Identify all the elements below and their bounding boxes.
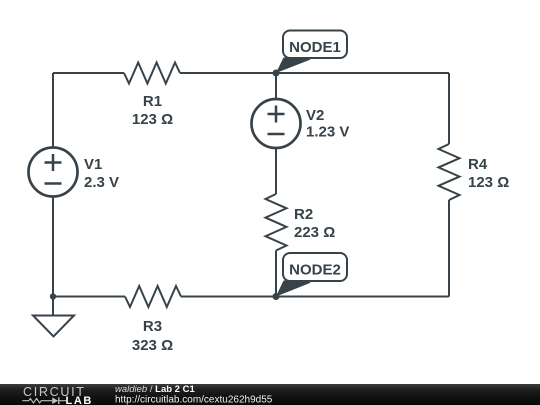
svg-text:V2: V2 xyxy=(306,107,324,124)
wire top-left horizontal (node at V1 top to R1 left) xyxy=(53,72,124,74)
wire NODE1 down to V2 xyxy=(275,73,277,99)
CircuitLab logo wire-resistor-diode icon xyxy=(22,397,66,404)
resistor R4 xyxy=(439,144,510,200)
wire right vertical top (corner to R4) xyxy=(448,73,450,144)
junction dot bottom-left xyxy=(50,293,56,299)
svg-text:R3: R3 xyxy=(143,318,162,335)
wire NODE1 to top-right corner xyxy=(276,72,449,74)
svg-text:NODE2: NODE2 xyxy=(289,262,341,279)
svg-text:2.3 V: 2.3 V xyxy=(84,174,119,191)
wire V1 bottom to bottom-left junction xyxy=(52,197,54,297)
ground stub wire xyxy=(52,297,54,316)
svg-text:1.23 V: 1.23 V xyxy=(306,124,349,141)
wire bottom-left (junction to R3) xyxy=(53,296,125,298)
wire R3 right to NODE2 and bottom-right corner xyxy=(181,296,449,298)
svg-text:waldieb / Lab 2 C1: waldieb / Lab 2 C1 xyxy=(115,384,195,395)
svg-text:123 Ω: 123 Ω xyxy=(132,111,173,128)
svg-text:223 Ω: 223 Ω xyxy=(294,224,335,241)
svg-text:V1: V1 xyxy=(84,156,102,173)
node NODE1 xyxy=(273,31,348,77)
svg-text:R4: R4 xyxy=(468,156,488,173)
svg-text:R1: R1 xyxy=(143,93,162,110)
wire R1 right to NODE1 xyxy=(180,72,276,74)
resistor R2 xyxy=(266,194,336,251)
svg-text:123 Ω: 123 Ω xyxy=(468,174,509,191)
ground xyxy=(33,316,74,337)
svg-text:LAB: LAB xyxy=(66,395,93,405)
wire R2 bottom to NODE2 xyxy=(275,251,277,297)
wire R4 bottom to bottom-right corner xyxy=(448,200,450,297)
voltage source V2 xyxy=(252,99,350,148)
resistor R3 xyxy=(125,286,181,354)
svg-text:323 Ω: 323 Ω xyxy=(132,337,173,354)
wire left vertical (top corner to V1) xyxy=(52,73,54,148)
voltage source V1 xyxy=(29,148,120,197)
node NODE2 xyxy=(273,253,348,300)
wire V2 bottom to R2 xyxy=(275,148,277,194)
resistor R1 xyxy=(124,63,180,129)
footer bar xyxy=(0,384,540,405)
svg-text:http://circuitlab.com/cextu262: http://circuitlab.com/cextu262h9d55 xyxy=(115,395,273,405)
svg-text:NODE1: NODE1 xyxy=(289,39,341,56)
svg-text:R2: R2 xyxy=(294,206,313,223)
